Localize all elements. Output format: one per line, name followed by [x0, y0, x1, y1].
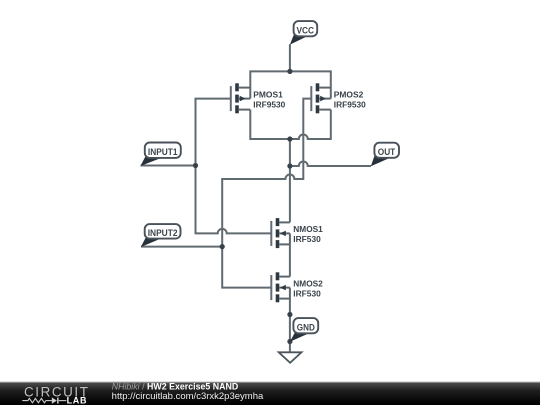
svg-text:NMOS1: NMOS1 [293, 224, 323, 234]
svg-text:VCC: VCC [296, 25, 314, 35]
footer top border [0, 382, 540, 383]
junction at INPUT1 branch [193, 163, 198, 168]
transistor NMOS1 (IRF530) [271, 218, 290, 248]
junction at NMOS2 source [287, 312, 292, 317]
net flag OUT [371, 143, 399, 167]
wire bottom rail with PMOS drain legs, hop over INPUT2 net [250, 110, 330, 139]
svg-text:LAB: LAB [67, 396, 88, 405]
net flag VCC [290, 21, 317, 44]
transistor PMOS1 (IRF9530) [231, 83, 251, 113]
schematic wires and symbols [141, 44, 371, 352]
wire NMOS1 source to NMOS2 drain [289, 244, 291, 276]
wire NMOS2 source to ground [289, 299, 291, 353]
wire INPUT1 from label [141, 165, 196, 167]
net flag GND [290, 318, 318, 342]
svg-text:INPUT2: INPUT2 [148, 228, 178, 238]
wire VCC vertical [289, 44, 291, 71]
junction at bottom rail / OUT [287, 136, 292, 141]
net flag INPUT1 [140, 143, 180, 167]
wire OUT vertical (drains to NMOS1 drain) [289, 139, 291, 222]
svg-text:IRF9530: IRF9530 [253, 99, 285, 109]
svg-text:IRF9530: IRF9530 [334, 99, 366, 109]
svg-text:PMOS1: PMOS1 [253, 89, 283, 99]
footer bar [0, 383, 540, 405]
wire top rail with PMOS1/PMOS2 source legs [250, 71, 330, 98]
transistor PMOS2 (IRF9530) [311, 83, 331, 113]
junction at GND flag [287, 339, 292, 344]
wire INPUT1 net: PMOS1 gate, riser, NMOS1 gate with hop over INPUT2 net [196, 99, 272, 234]
wire OUT horizontal with hop over INPUT2 net [290, 162, 371, 167]
ground symbol [279, 352, 302, 363]
junction at VCC / top rail [287, 69, 292, 74]
svg-text:GND: GND [297, 323, 315, 333]
svg-text:NHibiki / HW2 Exercise5 NAND: NHibiki / HW2 Exercise5 NAND [112, 381, 239, 391]
wire INPUT2 net: NMOS2 gate, riser, hop over OUT net, PMOS2 gate [222, 99, 311, 288]
svg-text:NMOS2: NMOS2 [293, 278, 323, 288]
net flag INPUT2 [141, 224, 181, 247]
svg-text:http://circuitlab.com/c3rxk2p3: http://circuitlab.com/c3rxk2p3eymha [112, 391, 264, 402]
junction at OUT branch [287, 163, 292, 168]
junction at INPUT2 branch [220, 244, 225, 249]
transistor NMOS2 (IRF530) [271, 272, 290, 302]
svg-text:IRF530: IRF530 [293, 234, 321, 244]
svg-text:PMOS2: PMOS2 [334, 89, 364, 99]
svg-text:OUT: OUT [378, 147, 396, 157]
footer CircuitLab logo: waveform (resistor + diode) [22, 398, 66, 402]
svg-text:IRF530: IRF530 [293, 288, 321, 298]
wire INPUT2 from label [141, 246, 222, 248]
svg-text:INPUT1: INPUT1 [148, 147, 178, 157]
